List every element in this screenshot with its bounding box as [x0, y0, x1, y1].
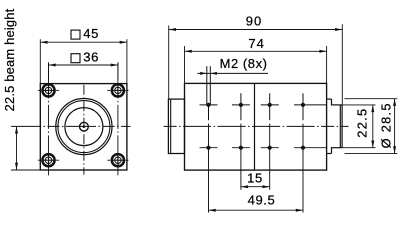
- svg-text:49.5: 49.5: [248, 192, 276, 207]
- dimension square-45: dimension line: [40, 41, 127, 43]
- dimension 74 extension lines: [184, 46, 186, 83]
- dimension 15 line: [241, 186, 270, 188]
- diameter 22.5 dimension line: [372, 105, 374, 148]
- right barrel 22.5 top edge: [332, 104, 343, 106]
- vertical centerline of front view: [83, 85, 85, 175]
- M2 hole vertical ticks top row: [240, 93, 242, 120]
- screw hole top-right: [107, 84, 128, 96]
- diameter 22.5 extension lines: [342, 104, 375, 106]
- diameter 28.5 extension lines: [345, 98, 398, 100]
- svg-text:Ø 28.5: Ø 28.5: [379, 102, 394, 148]
- aperture center dot: [83, 125, 86, 128]
- side view left barrel: [168, 99, 184, 153]
- dimension 90 line: [169, 29, 342, 31]
- dimension square-45: extension lines: [39, 39, 41, 83]
- svg-text:90: 90: [246, 14, 262, 29]
- side view beam axis centerline: [164, 125, 349, 127]
- dimension square-45: square symbol: [71, 30, 80, 39]
- M2 thread lines above first hole: [206, 66, 208, 105]
- M2 holes bottom row dots: [206, 146, 210, 150]
- right step 28.5 top edge: [327, 98, 332, 100]
- dimension 90 extension lines: [168, 26, 170, 100]
- M2 holes top row dots: [206, 103, 210, 107]
- extension lines below bottom holes cols 2 and 3: [240, 124, 242, 190]
- front view plate (45 square): [40, 84, 127, 170]
- dimension 49.5 line: [209, 209, 304, 211]
- right barrel 22.5 bottom edge: [332, 147, 343, 149]
- M2 callout shelf line: [198, 72, 269, 74]
- bolt pattern vertical centerline left column: [48, 62, 50, 175]
- screw hole bottom-left: [38, 154, 59, 166]
- svg-text:36: 36: [83, 50, 99, 65]
- dimension square-36: extension lines: [48, 62, 50, 80]
- side view body seam line: [254, 83, 256, 170]
- lens barrel outer circle: [56, 99, 112, 155]
- inner bore circle: [65, 108, 103, 146]
- diameter 28.5 dimension line: [394, 99, 396, 154]
- dimension 74 line: [185, 50, 327, 52]
- beam height dimension line: [16, 126, 18, 170]
- side view main body: [185, 83, 327, 170]
- screw hole bottom-right: [107, 154, 128, 166]
- right step shoulder lower: [331, 147, 333, 153]
- horizontal beam axis centerline front view: [11, 125, 131, 127]
- svg-text:45: 45: [83, 26, 99, 41]
- side view left barrel chamfer line: [170, 99, 172, 153]
- bolt pattern vertical centerline right column: [117, 62, 119, 175]
- svg-text:22.5: 22.5: [354, 108, 369, 138]
- svg-text:74: 74: [248, 36, 264, 51]
- hole row centerline top: [200, 104, 327, 106]
- dimension square-36: square symbol: [71, 54, 80, 63]
- aperture circle: [80, 122, 89, 131]
- lens barrel chamfer circle: [58, 101, 110, 153]
- dimension square-36: dimension line: [49, 64, 118, 66]
- svg-text:22.5 beam height: 22.5 beam height: [2, 8, 17, 111]
- right barrel chamfer line: [339, 105, 341, 148]
- M2 callout arrows: [200, 72, 207, 75]
- screw hole top-left: [38, 84, 59, 96]
- extension lines below bottom holes cols 1 and 4: [208, 124, 210, 213]
- svg-text:15: 15: [247, 170, 263, 185]
- hole row centerline bottom: [200, 147, 327, 149]
- right barrel tip face: [341, 105, 343, 148]
- svg-text:M2 (8x): M2 (8x): [220, 56, 268, 71]
- right step 28.5 bottom edge: [327, 153, 332, 155]
- right step shoulder upper: [331, 99, 333, 105]
- beam height bottom reference line: [11, 169, 40, 171]
